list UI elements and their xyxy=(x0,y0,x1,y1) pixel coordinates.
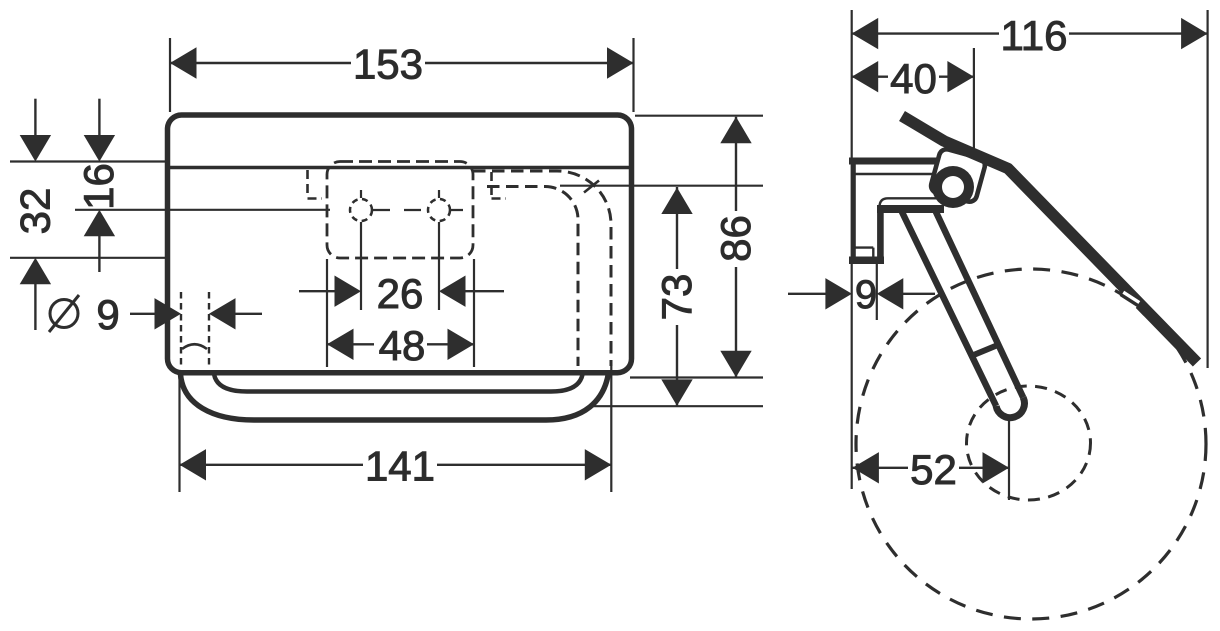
bracket top plate xyxy=(849,158,940,165)
dim 16 xyxy=(98,99,100,136)
dim 141 extension lines xyxy=(180,364,612,492)
shelf xyxy=(877,205,944,213)
dim dia9 leader xyxy=(130,313,156,315)
dim 153 line xyxy=(170,62,634,64)
dim 73 bottom ref line xyxy=(593,405,763,407)
paper roll core dashed circle xyxy=(967,386,1091,500)
dim 116 line xyxy=(852,32,1208,34)
dim 32 xyxy=(34,99,36,136)
dim 40 line xyxy=(852,75,974,77)
pivot pin xyxy=(932,166,974,208)
roll bar outer outline xyxy=(181,373,609,420)
svg-text:153: 153 xyxy=(353,41,423,88)
dim 73 top ref line xyxy=(560,185,763,187)
screw hole left xyxy=(350,199,372,221)
arm tip cap xyxy=(996,398,1024,418)
svg-text:73: 73 xyxy=(653,274,700,321)
dim 9 xyxy=(788,293,826,295)
dim dia9 symbol xyxy=(50,300,78,328)
cover outer dashed outline xyxy=(473,171,611,366)
arm left edge xyxy=(902,211,997,406)
svg-text:52: 52 xyxy=(910,446,957,493)
dim 9 extension line xyxy=(876,261,878,320)
svg-text:9: 9 xyxy=(96,291,119,338)
roll axis line xyxy=(1008,420,1010,500)
bottom screw hole dashed lines xyxy=(181,292,209,366)
cover inner dashed outline xyxy=(487,187,578,367)
mounting plate dashed outline xyxy=(327,162,473,259)
cover flap xyxy=(902,116,1197,363)
dim 86 bottom ref line xyxy=(630,376,763,378)
wall extension line xyxy=(851,10,853,489)
hinge block xyxy=(929,148,986,204)
dim 116 right extension line xyxy=(1206,10,1208,368)
shelf top edge xyxy=(880,198,938,207)
dim 141 xyxy=(180,464,612,466)
arm right edge xyxy=(936,211,1024,398)
left dashed step xyxy=(308,170,323,199)
bracket inner ledge xyxy=(852,248,873,257)
roll circle dash crossing flap xyxy=(1122,295,1138,305)
hole axis line xyxy=(75,209,330,211)
svg-text:16: 16 xyxy=(75,163,122,210)
bracket front bar xyxy=(877,211,884,264)
hole centerlines xyxy=(361,190,439,310)
dim 86 line xyxy=(735,117,737,378)
body outline xyxy=(168,115,632,373)
svg-text:116: 116 xyxy=(1001,12,1068,59)
arm rung xyxy=(970,345,999,357)
datum line 32 bottom xyxy=(10,257,166,259)
paper roll outer dashed circle xyxy=(856,269,1206,619)
dim 73 line xyxy=(676,187,678,406)
dim 40 extension line xyxy=(973,48,975,148)
dim 86 top ref line xyxy=(635,115,763,117)
svg-text:48: 48 xyxy=(379,322,426,369)
dim 153 extension lines xyxy=(170,38,634,112)
dim 26 xyxy=(299,290,336,292)
svg-text:26: 26 xyxy=(377,270,424,317)
dim 48 extension lines xyxy=(327,259,474,367)
svg-text:141: 141 xyxy=(365,443,435,490)
bracket top plate lower edge xyxy=(854,173,936,175)
roll bar inner outline xyxy=(214,374,583,392)
svg-text:32: 32 xyxy=(12,188,59,235)
svg-text:86: 86 xyxy=(712,215,759,262)
bracket wall edge xyxy=(852,158,856,263)
bottom screw hole arc xyxy=(182,344,207,349)
bracket foot xyxy=(849,257,884,265)
svg-text:40: 40 xyxy=(890,55,937,102)
dim 52 line xyxy=(852,467,1009,469)
screw hole right xyxy=(428,199,450,221)
right dashed step xyxy=(492,172,507,199)
svg-text:9: 9 xyxy=(855,273,877,317)
dim 48 xyxy=(327,343,474,345)
datum line 16-32 top xyxy=(10,160,166,162)
body feature line xyxy=(168,166,631,170)
